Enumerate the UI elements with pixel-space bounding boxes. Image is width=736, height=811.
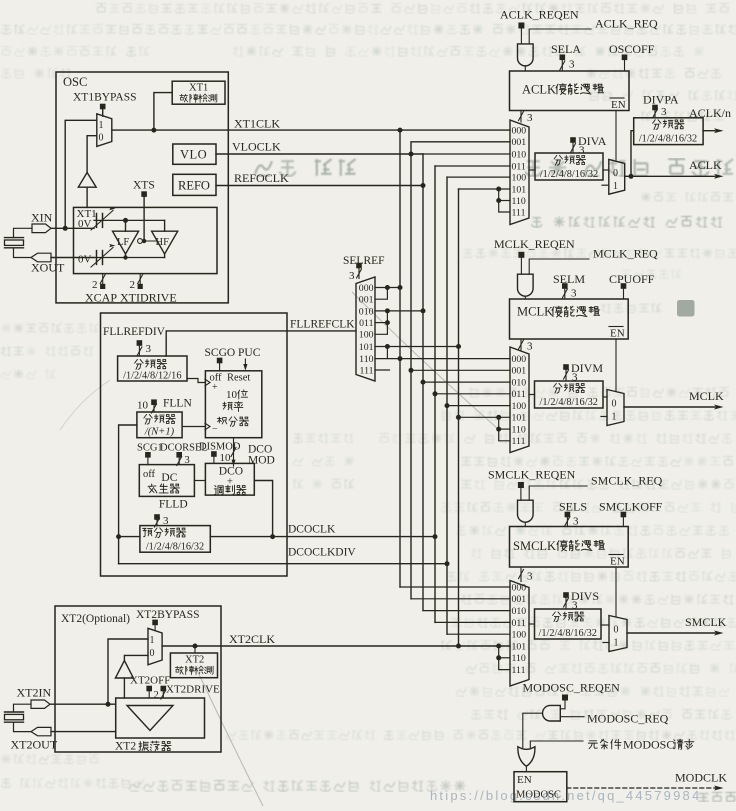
gate AND ACLK request: [518, 44, 534, 66]
svg-text:LF: LF: [117, 237, 129, 248]
net VLOCLK wire: [216, 153, 423, 155]
rail DCOCLKDIV vertical: [446, 177, 448, 634]
integrator 10-bit frequency integrator: [205, 371, 261, 438]
rail XT1CLK vertical: [399, 130, 401, 587]
wire SMCLK mux 000 from XT1CLK rail: [400, 586, 510, 588]
junction XT2CLK rail: [456, 644, 461, 649]
svg-text:XT2BYPASS: XT2BYPASS: [136, 609, 200, 621]
MCLK enable logic box: [510, 299, 629, 339]
rail DCOCLK vertical: [434, 166, 436, 622]
svg-text:3: 3: [571, 288, 577, 300]
svg-text:1: 1: [614, 638, 619, 649]
wire EN to out mux: [615, 111, 617, 161]
svg-text:001: 001: [512, 366, 527, 377]
svg-text:100: 100: [512, 401, 527, 412]
svg-text:001: 001: [512, 594, 527, 605]
XT2 fault detection box: [170, 653, 217, 678]
wire LF output to XOUT: [123, 255, 127, 259]
junction prescaler input: [116, 534, 121, 539]
wire to HF input: [164, 220, 166, 231]
junction DCOCLKDIV to rail: [445, 561, 450, 566]
mux ACLK source select: [510, 120, 529, 225]
svg-text:SMCLK: SMCLK: [685, 615, 727, 629]
svg-text:010: 010: [512, 378, 527, 389]
wire OR out to MODOSC: [525, 766, 527, 771]
wire SMCLK mux 011 from DCOCLK rail: [435, 621, 510, 623]
junction XIN bypass tap: [63, 226, 68, 231]
svg-text:DIVPA: DIVPA: [643, 93, 679, 107]
svg-text:0: 0: [612, 399, 617, 410]
svg-text:/1/2/4/8/16/32: /1/2/4/8/16/32: [639, 134, 697, 145]
svg-text:100: 100: [512, 630, 527, 641]
svg-text:htips://blog.csdn.net/qq_44579: htips://blog.csdn.net/qq_44579984: [430, 788, 701, 803]
svg-text:MODOSC: MODOSC: [516, 790, 561, 801]
svg-text:off: off: [143, 469, 156, 480]
junction DCOCLK to rail: [433, 534, 438, 539]
svg-text:0: 0: [613, 168, 618, 179]
junction XT1CLK to rail: [398, 128, 403, 133]
net XT2CLK wire to SMCLK mux 101: [162, 645, 510, 647]
svg-text:2: 2: [92, 279, 98, 291]
svg-text:XT1: XT1: [189, 83, 208, 94]
wire SELREF 000 from XT1CLK rail: [375, 287, 400, 289]
svg-text:000: 000: [359, 283, 374, 294]
wire SMCLK mux 010 from REFOCLK rail: [423, 610, 510, 612]
svg-text:SELA: SELA: [551, 42, 581, 56]
DIVS control (3 bits): [563, 592, 569, 598]
XT2 oscillator box: [116, 698, 205, 738]
svg-text:MODCLK: MODCLK: [675, 771, 727, 785]
svg-text:000: 000: [512, 582, 527, 593]
rail REFOCLK vertical: [422, 186, 424, 611]
svg-text:ACLK: ACLK: [689, 158, 722, 172]
wire mux 0-input from amp: [124, 655, 148, 660]
svg-text:3: 3: [527, 112, 533, 124]
svg-text:−: −: [212, 424, 218, 435]
svg-text:XT2: XT2: [185, 655, 204, 666]
divider FLLREFDIV /1/2/4/8/12/16: [118, 356, 187, 381]
svg-text:HF: HF: [156, 237, 170, 248]
wire AND out to OR: [523, 713, 543, 747]
svg-text:011: 011: [512, 389, 526, 400]
wire feedback to divider N: [119, 425, 137, 564]
svg-text:010: 010: [359, 306, 374, 317]
mux XT1 bypass: [97, 114, 112, 147]
wire SMCLK mux out to divider: [529, 623, 535, 625]
svg-text:3: 3: [569, 59, 575, 71]
svg-text:FLLREFCLK: FLLREFCLK: [290, 319, 355, 331]
svg-text:10: 10: [226, 389, 238, 401]
svg-text:XT2IN: XT2IN: [17, 686, 52, 700]
net FLLREFCLK wire: [166, 331, 356, 356]
svg-text:101: 101: [512, 641, 527, 652]
svg-text:MCLK: MCLK: [517, 305, 553, 319]
wire MCLK mux 100 from DCOCLKDIV rail: [447, 405, 510, 407]
svg-text:MODOSC_REQ: MODOSC_REQ: [587, 712, 669, 726]
svg-text:101: 101: [512, 184, 527, 195]
svg-text:EN: EN: [610, 556, 625, 568]
wire amp input from XT2 osc: [123, 678, 125, 698]
svg-text:SCGO: SCGO: [205, 347, 236, 359]
wire SELREF 110 tie: [386, 347, 388, 359]
wire DCO output down to DCOCLK: [254, 481, 272, 537]
svg-text:/1/2/4/8/16/32: /1/2/4/8/16/32: [146, 542, 204, 553]
mux ACLK enable 0/1: [609, 159, 625, 194]
divider /(N+1): [137, 412, 182, 438]
svg-text:Reset: Reset: [227, 373, 250, 384]
svg-text:XT1CLK: XT1CLK: [234, 117, 280, 131]
svg-text:/(N+1): /(N+1): [144, 427, 175, 438]
svg-text:XT2CLK: XT2CLK: [229, 632, 275, 646]
svg-text:101: 101: [512, 413, 527, 424]
wire SELREF 111 stub: [375, 369, 390, 371]
svg-text:111: 111: [512, 207, 526, 218]
wire divider to MCLK out mux: [603, 396, 607, 398]
wire SMCLK mux 110,111 tie: [496, 644, 501, 649]
amplifier LF oscillator: [113, 231, 139, 254]
net unconditional MODOSC request: [588, 741, 597, 749]
wire SELREF 001 tie: [375, 288, 387, 300]
svg-text:111: 111: [512, 436, 526, 447]
svg-text:0: 0: [614, 625, 619, 636]
svg-text:XCAP: XCAP: [85, 291, 117, 305]
DIVA control (3 bits): [570, 137, 576, 143]
svg-text:MODOSC: MODOSC: [623, 738, 674, 752]
MOD bus 10 bits to DCO: [233, 438, 235, 466]
wire select to SMCLK mux: [520, 567, 522, 582]
svg-text:110: 110: [512, 196, 526, 207]
svg-text:FLLREFDIV: FLLREFDIV: [103, 326, 166, 338]
net SMCLK output: [627, 632, 715, 634]
svg-text:0: 0: [99, 133, 104, 144]
svg-text:100: 100: [359, 330, 374, 341]
svg-text:FLLD: FLLD: [159, 499, 188, 511]
svg-text:VLO: VLO: [180, 148, 207, 162]
net ACLK/n output: [703, 130, 715, 132]
svg-text:011: 011: [512, 161, 526, 172]
junction XT1CLK to fault detect: [151, 128, 156, 133]
wire MCLK mux 101 from XT2CLK rail: [459, 416, 511, 418]
divider DIVM /1/2/4/8/16/32: [535, 381, 604, 408]
wire MCLK mux 001 from VLOCLK rail: [411, 369, 510, 371]
SMCLK enable logic box: [510, 527, 629, 568]
oscillator REFO: [173, 174, 216, 195]
svg-text:MOD: MOD: [248, 455, 275, 467]
divider DIVA /1/2/4/8/16/32: [535, 153, 603, 180]
svg-text:EN: EN: [611, 99, 626, 111]
capacitor XCAP top (variable): [94, 219, 165, 221]
svg-text:1: 1: [150, 635, 155, 646]
svg-text:3: 3: [349, 270, 355, 282]
wire MCLK mux 011 from DCOCLK rail: [435, 393, 510, 395]
svg-text:SMCLKOFF: SMCLKOFF: [599, 500, 663, 514]
svg-text:001: 001: [512, 137, 527, 148]
pin XTIDRIVE control (2 bits): [139, 274, 141, 285]
svg-text:MCLK: MCLK: [689, 389, 724, 403]
wire EN to SMCLK out mux: [615, 567, 617, 617]
svg-text:REFO: REFO: [178, 179, 210, 193]
divider DIVPA /1/2/4/8/16/32: [634, 118, 703, 145]
svg-text:DC: DC: [161, 472, 177, 484]
oscillator VLO: [173, 144, 216, 164]
svg-text:XT2OUT: XT2OUT: [11, 738, 58, 752]
wire select to MCLK mux: [520, 339, 522, 351]
svg-text:2: 2: [154, 690, 159, 701]
svg-text:001: 001: [359, 295, 374, 306]
wire SELREF 101 from XT2CLK rail: [375, 346, 459, 348]
svg-text:XT2(Optional): XT2(Optional): [61, 613, 130, 625]
svg-text:ACLK: ACLK: [522, 83, 556, 97]
wire SELREF 011,100 tie: [375, 311, 387, 334]
svg-text:10: 10: [137, 400, 149, 412]
crystal XT2: [14, 704, 32, 712]
svg-text:SELM: SELM: [553, 272, 585, 286]
prescaler FLLD /1/2/4/8/16/32: [140, 526, 210, 553]
svg-text:XT2DRIVE: XT2DRIVE: [166, 684, 220, 696]
mux MCLK enable 0/1: [607, 390, 624, 426]
wire ACLK mux 110,111 tie: [496, 187, 501, 192]
svg-text:SELS: SELS: [559, 500, 587, 514]
svg-text:110: 110: [512, 653, 526, 664]
wire bypass 1-input from XT2IN: [108, 639, 148, 704]
svg-text:VLOCLK: VLOCLK: [232, 140, 281, 154]
net REFOCLK wire: [216, 185, 423, 187]
svg-text:PUC: PUC: [238, 347, 261, 359]
wire MCLK mux out to divider: [529, 394, 535, 396]
svg-text:MCLK_REQEN: MCLK_REQEN: [494, 237, 575, 251]
svg-text:000: 000: [512, 126, 527, 137]
svg-text:3: 3: [661, 106, 667, 118]
svg-text:OSCOFF: OSCOFF: [609, 42, 655, 56]
svg-text:EN: EN: [610, 328, 625, 340]
svg-text:XIN: XIN: [31, 211, 53, 225]
junction VLOCLK to rail and ACLK mux 001: [409, 152, 414, 157]
rail VLOCLK vertical: [410, 154, 412, 599]
pin XOUT pad: [31, 253, 51, 262]
wire ACLK mux 100 from DCOCLKDIV rail: [447, 176, 510, 178]
net MODCLK output (dashed by watermark): [567, 787, 718, 789]
svg-text:100: 100: [512, 173, 527, 184]
wire amp input from XT1 osc: [86, 187, 88, 207]
crystal XT1: [14, 228, 33, 237]
svg-text:XTS: XTS: [133, 180, 155, 192]
mux MCLK source select: [510, 347, 529, 453]
gate OR MODOSC enable: [518, 747, 535, 767]
svg-text:3: 3: [146, 343, 152, 355]
wire ACLK mux 011 from DCOCLK rail: [435, 165, 510, 167]
wire divider to out mux: [603, 169, 609, 171]
svg-text:010: 010: [512, 149, 527, 160]
svg-text:111: 111: [360, 365, 374, 376]
svg-text:DCOCLK: DCOCLK: [288, 524, 336, 536]
svg-text:SMCLK_REQEN: SMCLK_REQEN: [488, 468, 576, 482]
svg-text:111: 111: [512, 665, 526, 676]
svg-text:1: 1: [612, 412, 617, 423]
junction ACLK to DIVPA divider: [629, 174, 634, 179]
inverter bubble on LF select: [138, 239, 143, 244]
svg-text:000: 000: [512, 354, 527, 365]
svg-text:3: 3: [573, 516, 579, 528]
amplifier XT2 buffer: [115, 661, 133, 679]
wire refdiv to integrator: [187, 379, 205, 383]
svg-text:MODOSC_REQEN: MODOSC_REQEN: [523, 681, 621, 695]
net ACLK output: [625, 175, 715, 177]
XT1 oscillator inner box: [74, 207, 218, 273]
svg-text:1: 1: [613, 181, 618, 192]
svg-text:ACLK/n: ACLK/n: [689, 106, 731, 120]
junction to LF input: [123, 218, 128, 223]
amplifier HF oscillator: [152, 231, 178, 254]
svg-text:SELREF: SELREF: [343, 255, 385, 267]
junction XT2CLK fault tap: [193, 644, 198, 649]
svg-text:XTIDRIVE: XTIDRIVE: [120, 291, 177, 305]
svg-text:ACLK_REQ: ACLK_REQ: [595, 17, 658, 31]
wire XTS select to LF/HF: [142, 240, 157, 242]
wire MCLK mux 000 / SELREF 110 from XT1CLK rail: [375, 358, 510, 360]
svg-text:011: 011: [512, 618, 526, 629]
svg-text:2: 2: [130, 279, 136, 291]
DIVM control (3 bits): [563, 364, 569, 370]
svg-text:/1/2/4/8/16/32: /1/2/4/8/16/32: [539, 628, 597, 639]
wire divider to SMCLK out mux: [601, 624, 609, 626]
wire MCLK mux 010 from REFOCLK rail: [423, 381, 510, 383]
svg-text:0V: 0V: [78, 254, 92, 266]
wire SELREF 010 from REFOCLK rail: [375, 310, 423, 312]
wire divider N to integrator minus: [182, 426, 205, 428]
wire EN to MCLK out mux: [615, 339, 617, 391]
XT1 fault detection box: [172, 81, 225, 104]
amplifier XT1 buffer: [78, 173, 96, 188]
svg-text:3: 3: [527, 341, 533, 353]
DCO modulator box: [205, 463, 254, 495]
svg-text:DCOCLKDIV: DCOCLKDIV: [288, 547, 356, 559]
pin XT2OUT pad: [31, 727, 51, 735]
svg-text:SMCLK: SMCLK: [513, 539, 556, 553]
svg-text:110: 110: [512, 425, 526, 436]
svg-text:010: 010: [512, 606, 527, 617]
svg-text:1: 1: [99, 120, 104, 131]
svg-text:101: 101: [359, 342, 374, 353]
oscillator MODOSC box: [514, 772, 567, 802]
svg-text:EN: EN: [517, 774, 532, 786]
svg-text:XT2: XT2: [115, 741, 136, 753]
XT2 block box (optional): [55, 606, 221, 752]
svg-text:XOUT: XOUT: [31, 261, 65, 275]
net MCLK output: [624, 406, 715, 408]
gate AND MODOSC request (points left): [543, 705, 561, 721]
wire mux 0-input from amp: [87, 136, 97, 173]
svg-text:ACLK_REQEN: ACLK_REQEN: [500, 8, 579, 22]
wire SMCLK mux 100 from DCOCLKDIV rail: [447, 633, 510, 635]
ACLK enable logic box: [510, 71, 630, 111]
net XT1CLK wire: [112, 129, 510, 131]
net DCOCLK wire: [210, 536, 435, 538]
svg-text:3: 3: [579, 145, 585, 157]
wire MCLK mux 110,111 tie: [496, 415, 501, 420]
svg-text:XT2OFF: XT2OFF: [130, 675, 170, 687]
svg-text:FLLN: FLLN: [163, 398, 192, 410]
mux SMCLK source select: [510, 581, 529, 687]
OSC block box: [56, 72, 228, 303]
pin XCAP control (2 bits): [102, 274, 104, 285]
FLL block box: [101, 313, 288, 576]
wire XIN internal: [74, 227, 95, 229]
wire select to ACLK mux: [520, 111, 522, 123]
gate AND SMCLK request: [518, 500, 534, 522]
svg-text:SCG1: SCG1: [137, 443, 163, 454]
svg-text:10: 10: [220, 452, 232, 464]
mux XT2 bypass: [148, 628, 162, 665]
wire SMCLK mux 001 from VLOCLK rail: [411, 598, 510, 600]
gate AND MCLK request: [518, 274, 534, 296]
wire bypass 1-input from XIN: [65, 120, 97, 228]
junction DCO to DCOCLK: [270, 534, 275, 539]
junction REFOCLK to rail and ACLK mux 010: [421, 183, 426, 188]
svg-text:/1/2/4/8/16/32: /1/2/4/8/16/32: [540, 169, 598, 180]
svg-text:off: off: [210, 373, 223, 384]
wire ACLK mux 101 from XT2CLK rail: [459, 188, 511, 190]
svg-text:XT1BYPASS: XT1BYPASS: [73, 92, 137, 104]
wire MCLK out mux 1 stub: [601, 416, 607, 418]
wire ACLK mux out to divider: [529, 169, 535, 171]
svg-text:0: 0: [150, 648, 155, 659]
DC generator box: [139, 465, 194, 497]
svg-text:REFOCLK: REFOCLK: [234, 171, 289, 185]
svg-text:OSC: OSC: [63, 75, 87, 89]
svg-text:MCLK_REQ: MCLK_REQ: [593, 247, 658, 261]
junction XT2IN bypass tap: [106, 702, 111, 707]
divider DIVS /1/2/4/8/16/32: [535, 609, 602, 639]
svg-text:110: 110: [359, 354, 373, 365]
wire out mux 1 stub: [602, 184, 609, 186]
mux SELREF (FLL reference select): [356, 277, 375, 381]
wire SMCLK out mux 1 stub: [603, 642, 609, 644]
wire HF output to XOUT: [164, 254, 166, 258]
svg-text:/1/2/4/8/12/16: /1/2/4/8/12/16: [123, 371, 181, 382]
mux SMCLK enable 0/1: [609, 616, 627, 652]
svg-text:3: 3: [527, 571, 533, 583]
svg-text:SMCLK_REQ: SMCLK_REQ: [591, 474, 663, 488]
wire DC gen to DCO: [194, 480, 205, 482]
svg-text:/1/2/4/8/16/32: /1/2/4/8/16/32: [540, 397, 598, 408]
net DCOCLKDIV wire: [119, 563, 447, 565]
svg-text:CPUOFF: CPUOFF: [609, 272, 655, 286]
svg-text:011: 011: [359, 318, 373, 329]
rail XT2CLK vertical: [458, 189, 460, 646]
